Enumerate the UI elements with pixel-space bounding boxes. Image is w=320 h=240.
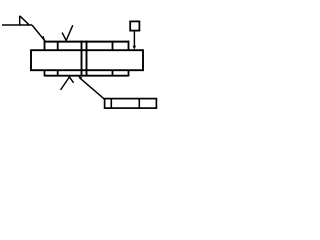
surface finish symbol bottom [61, 77, 74, 90]
lower flange left edge [44, 70, 46, 76]
leader to top-left corner [32, 25, 45, 41]
joint line right [86, 41, 88, 77]
datum target stem [133, 31, 135, 47]
frame divider 1 [110, 99, 112, 109]
leader arrowhead [42, 36, 46, 42]
lower band divider right [112, 70, 114, 76]
upper flange top edge [45, 41, 129, 43]
frame leader arrowhead [78, 76, 82, 79]
leader to control frame [80, 78, 105, 100]
datum target square [130, 21, 139, 30]
datum triangle [20, 16, 30, 25]
stem arrowhead [133, 46, 137, 50]
upper flange right edge [128, 41, 130, 51]
surface finish symbol top [62, 25, 73, 40]
upper band divider left [57, 42, 59, 51]
lower flange right edge [128, 70, 130, 76]
feature control frame [105, 99, 157, 109]
lower band divider left [57, 70, 59, 76]
joint line left [81, 41, 83, 77]
upper flange left edge [44, 41, 46, 51]
upper band divider right [112, 42, 114, 51]
frame divider 2 [138, 99, 140, 109]
shaft body [31, 50, 143, 70]
lower flange bottom edge [45, 75, 129, 77]
datum reference line [2, 24, 32, 26]
